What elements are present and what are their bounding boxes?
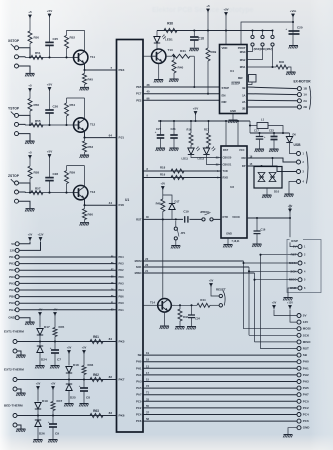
- svg-text:83: 83: [109, 411, 113, 415]
- svg-text:EXT1-THERM: EXT1-THERM: [4, 330, 24, 334]
- svg-text:PJ0: PJ0: [119, 203, 125, 207]
- svg-text:PC0: PC0: [136, 399, 142, 403]
- svg-text:+5V: +5V: [51, 383, 56, 386]
- svg-text:(MS0)(MS1)(MS2): (MS0)(MS1)(MS2): [254, 49, 273, 51]
- svg-text:C27: C27: [156, 127, 162, 131]
- svg-text:PK2: PK2: [9, 268, 15, 272]
- svg-text:13: 13: [146, 364, 149, 368]
- svg-text:PC6: PC6: [136, 419, 142, 423]
- svg-text:PA7: PA7: [136, 393, 142, 397]
- svg-text:2B: 2B: [242, 106, 245, 110]
- svg-text:5V: 5V: [303, 314, 307, 318]
- svg-text:R40: R40: [279, 60, 285, 64]
- svg-text:GND: GND: [8, 316, 16, 320]
- svg-text:T10: T10: [168, 48, 174, 52]
- svg-text:D18: D18: [73, 363, 79, 367]
- svg-text:D26: D26: [39, 432, 45, 436]
- svg-text:PH3: PH3: [9, 281, 15, 285]
- svg-text:STEP: STEP: [222, 86, 230, 90]
- svg-text:+5V: +5V: [36, 383, 41, 386]
- svg-text:D6: D6: [293, 133, 297, 137]
- svg-text:REF: REF: [238, 76, 244, 80]
- svg-text:GND: GND: [230, 109, 236, 113]
- svg-text:71: 71: [146, 391, 149, 395]
- svg-text:PE3: PE3: [119, 68, 125, 72]
- svg-text:VDD: VDD: [222, 46, 228, 50]
- svg-text:PC0: PC0: [303, 399, 309, 403]
- svg-text:R51: R51: [35, 51, 41, 55]
- svg-text:PE2: PE2: [136, 98, 142, 102]
- svg-text:R62: R62: [93, 373, 99, 377]
- svg-text:YSTOP: YSTOP: [8, 107, 20, 111]
- svg-text:PH2: PH2: [303, 373, 309, 377]
- svg-text:MS2: MS2: [240, 58, 246, 62]
- svg-text:C19: C19: [183, 210, 189, 214]
- svg-text:1B: 1B: [242, 86, 245, 90]
- svg-text:R18: R18: [160, 166, 166, 170]
- svg-text:MS1: MS1: [240, 65, 246, 69]
- svg-text:JP1: JP1: [181, 231, 186, 235]
- svg-text:PH5: PH5: [303, 386, 309, 390]
- svg-text:SCK: SCK: [136, 265, 142, 269]
- svg-text:7,18,21: 7,18,21: [232, 240, 241, 243]
- svg-text:PB6: PB6: [119, 295, 125, 299]
- svg-text:17: 17: [146, 371, 149, 375]
- svg-text:PA3: PA3: [136, 380, 142, 384]
- svg-text:+5: +5: [28, 151, 32, 155]
- svg-text:R59: R59: [70, 171, 76, 175]
- svg-text:U1: U1: [125, 198, 129, 202]
- svg-text:PK2: PK2: [119, 268, 125, 272]
- svg-text:XSTOP: XSTOP: [8, 39, 20, 43]
- svg-text:PH1: PH1: [136, 366, 142, 370]
- svg-text:CBUS0: CBUS0: [223, 156, 232, 160]
- svg-text:58: 58: [146, 417, 149, 421]
- svg-text:MOSI: MOSI: [135, 259, 142, 263]
- svg-text:D19: D19: [42, 399, 48, 403]
- svg-text:1B: 1B: [303, 87, 307, 91]
- svg-text:PK4: PK4: [119, 255, 125, 259]
- svg-text:R45: R45: [88, 77, 94, 81]
- svg-text:PA1: PA1: [136, 373, 142, 377]
- svg-text:L1: L1: [261, 118, 265, 122]
- svg-text:C25: C25: [53, 37, 59, 41]
- svg-text:+5: +5: [28, 10, 32, 14]
- svg-text:MISO: MISO: [135, 271, 142, 275]
- svg-text:R55: R55: [35, 119, 41, 123]
- svg-text:R44: R44: [200, 298, 206, 302]
- svg-text:PK3: PK3: [119, 262, 125, 266]
- svg-text:2A: 2A: [242, 100, 245, 104]
- svg-text:RESET: RESET: [216, 288, 226, 292]
- svg-text:+12V: +12V: [38, 234, 44, 237]
- svg-text:R43: R43: [183, 315, 188, 319]
- svg-text:RST: RST: [303, 347, 309, 351]
- svg-text:19: 19: [146, 351, 149, 355]
- svg-text:D17: D17: [175, 200, 180, 204]
- svg-text:DTR: DTR: [223, 215, 228, 219]
- svg-text:PE5: PE5: [136, 85, 142, 89]
- svg-text:+12V: +12V: [287, 302, 293, 305]
- svg-text:SB: SB: [138, 353, 142, 357]
- svg-text:T14: T14: [150, 301, 155, 305]
- svg-text:D25: D25: [70, 396, 76, 400]
- svg-text:PJ1: PJ1: [119, 136, 125, 140]
- svg-text:C26: C26: [53, 105, 59, 109]
- svg-text:PG0: PG0: [119, 301, 125, 305]
- svg-text:+: +: [285, 27, 287, 31]
- svg-text:R48: R48: [156, 202, 161, 206]
- svg-text:PK6: PK6: [119, 414, 125, 418]
- svg-text:R47: R47: [57, 399, 63, 403]
- svg-text:R61: R61: [93, 335, 99, 339]
- svg-text:EXT2-THERM: EXT2-THERM: [4, 368, 24, 372]
- svg-text:R50: R50: [34, 35, 40, 39]
- svg-text:12V: 12V: [10, 248, 15, 252]
- svg-text:R41: R41: [180, 49, 186, 53]
- svg-text:DM: DM: [241, 156, 245, 160]
- svg-text:RST: RST: [136, 218, 142, 222]
- svg-text:PH1: PH1: [303, 366, 309, 370]
- svg-text:MISO: MISO: [303, 340, 311, 344]
- svg-text:+5V: +5V: [47, 83, 52, 87]
- svg-text:18: 18: [146, 358, 149, 362]
- svg-text:T11: T11: [90, 55, 95, 59]
- svg-text:1A: 1A: [242, 93, 245, 97]
- svg-text:+5V: +5V: [28, 234, 33, 237]
- svg-text:RST: RST: [291, 253, 297, 257]
- svg-text:PH3: PH3: [119, 281, 125, 285]
- svg-text:R58: R58: [34, 171, 40, 175]
- svg-text:PH0: PH0: [136, 360, 142, 364]
- svg-text:+5V: +5V: [67, 347, 72, 350]
- svg-text:GND: GND: [303, 426, 311, 430]
- svg-text:C8: C8: [86, 396, 90, 400]
- svg-text:SCK: SCK: [303, 333, 310, 337]
- svg-text:73: 73: [146, 384, 149, 388]
- svg-text:PH3: PH3: [303, 380, 309, 384]
- svg-text:55: 55: [146, 404, 149, 408]
- svg-text:PC6: PC6: [303, 419, 309, 423]
- svg-text:+Vm: +Vm: [290, 9, 297, 13]
- svg-text:84: 84: [109, 337, 113, 341]
- svg-text:C18: C18: [198, 37, 204, 41]
- svg-text:MS3: MS3: [240, 50, 246, 54]
- svg-text:VCC: VCC: [239, 148, 245, 152]
- svg-text:BED-THERM: BED-THERM: [4, 404, 23, 408]
- svg-text:C17: C17: [254, 129, 259, 133]
- svg-text:USB: USB: [294, 143, 302, 147]
- svg-text:R40: R40: [178, 66, 184, 70]
- svg-text:C20: C20: [297, 26, 303, 30]
- svg-text:PC4: PC4: [303, 413, 309, 417]
- svg-text:ICSP: ICSP: [291, 239, 298, 243]
- svg-text:1A: 1A: [303, 93, 307, 97]
- svg-text:R57: R57: [35, 186, 41, 190]
- svg-text:R39: R39: [211, 50, 217, 54]
- svg-text:PC7: PC7: [136, 92, 142, 96]
- svg-text:PH7: PH7: [303, 393, 309, 397]
- svg-text:R56: R56: [34, 103, 40, 107]
- svg-text:82: 82: [109, 375, 113, 379]
- svg-text:C7: C7: [57, 358, 61, 362]
- svg-text:+5V: +5V: [47, 9, 52, 13]
- svg-text:PC4: PC4: [136, 413, 142, 417]
- svg-text:PK3: PK3: [9, 262, 15, 266]
- svg-text:C28: C28: [53, 172, 59, 176]
- svg-text:5V: 5V: [293, 245, 297, 249]
- svg-text:44: 44: [109, 201, 113, 205]
- svg-text:38: 38: [147, 83, 150, 87]
- svg-text:PK0: PK0: [9, 275, 15, 279]
- svg-text:PH4: PH4: [119, 288, 125, 292]
- svg-text:+5V: +5V: [38, 309, 43, 312]
- svg-text:2A: 2A: [303, 99, 307, 103]
- svg-text:40: 40: [147, 90, 150, 94]
- svg-text:R60: R60: [88, 213, 94, 217]
- svg-text:+5: +5: [28, 84, 32, 88]
- svg-text:PK7: PK7: [119, 378, 125, 382]
- svg-text:PC2: PC2: [136, 406, 142, 410]
- svg-text:+5V: +5V: [47, 150, 52, 154]
- svg-text:PK0: PK0: [119, 275, 125, 279]
- svg-text:LD12: LD12: [198, 157, 205, 161]
- svg-text:R17: R17: [204, 128, 209, 132]
- svg-text:96: 96: [147, 96, 150, 100]
- svg-text:T13: T13: [90, 190, 96, 194]
- svg-text:CBUS1: CBUS1: [223, 163, 232, 167]
- svg-text:T12: T12: [90, 123, 96, 127]
- svg-text:15: 15: [146, 378, 149, 382]
- svg-text:C9: C9: [55, 432, 59, 436]
- svg-text:U3: U3: [230, 185, 234, 189]
- svg-text:12V: 12V: [303, 320, 308, 324]
- svg-text:+: +: [79, 384, 81, 388]
- svg-text:PH0: PH0: [303, 360, 309, 364]
- svg-text:MOSI: MOSI: [303, 327, 311, 331]
- svg-text:R38: R38: [167, 22, 173, 26]
- svg-text:PG1: PG1: [119, 308, 125, 312]
- svg-text:PG0: PG0: [9, 301, 15, 305]
- svg-text:D24: D24: [41, 358, 47, 362]
- svg-text:JPROG: JPROG: [200, 210, 209, 214]
- svg-text:PK4: PK4: [9, 255, 15, 259]
- svg-text:R46: R46: [88, 363, 94, 367]
- svg-text:C24: C24: [195, 317, 200, 321]
- svg-text:+5V: +5V: [53, 309, 58, 312]
- svg-text:ZSTOP: ZSTOP: [8, 174, 20, 178]
- svg-text:2B: 2B: [303, 105, 307, 109]
- svg-text:DP: DP: [242, 164, 246, 168]
- svg-text:R45: R45: [59, 325, 65, 329]
- svg-text:R16: R16: [187, 128, 192, 132]
- svg-text:+: +: [48, 420, 50, 424]
- svg-text:D10: D10: [274, 190, 280, 194]
- svg-text:+5V: +5V: [209, 280, 214, 283]
- svg-text:RST: RST: [223, 148, 229, 152]
- svg-text:Elektor PCB Service prototype: Elektor PCB Service prototype: [152, 7, 254, 14]
- svg-text:33: 33: [146, 397, 149, 401]
- svg-text:+5: +5: [206, 4, 210, 8]
- svg-text:+5V: +5V: [161, 183, 166, 186]
- svg-text:LED1: LED1: [165, 38, 173, 42]
- svg-text:64: 64: [109, 133, 113, 137]
- svg-text:PK5: PK5: [119, 340, 125, 344]
- svg-text:5V: 5V: [11, 242, 15, 246]
- svg-text:PG1: PG1: [9, 308, 15, 312]
- svg-text:PH4: PH4: [9, 288, 15, 292]
- svg-text:R63: R63: [93, 409, 99, 413]
- svg-text:C16: C16: [261, 228, 266, 232]
- svg-text:PB6: PB6: [9, 295, 15, 299]
- svg-text:+: +: [50, 346, 52, 350]
- svg-text:C31: C31: [171, 127, 177, 131]
- svg-text:LD11: LD11: [182, 157, 189, 161]
- svg-text:R53: R53: [88, 145, 94, 149]
- svg-text:RXD: RXD: [223, 176, 229, 180]
- svg-text:TXD: TXD: [223, 169, 228, 173]
- svg-text:EN: EN: [222, 93, 226, 97]
- svg-text:+5V: +5V: [82, 347, 87, 350]
- svg-text:GND: GND: [226, 232, 232, 236]
- svg-text:+5V: +5V: [272, 302, 277, 305]
- svg-text:R52: R52: [70, 35, 76, 39]
- svg-text:37: 37: [146, 411, 149, 415]
- svg-text:U4: U4: [230, 69, 234, 73]
- svg-text:+5V: +5V: [193, 107, 198, 111]
- svg-text:R54: R54: [70, 103, 76, 107]
- svg-text:EX-MOTOR: EX-MOTOR: [293, 80, 311, 84]
- svg-text:PA5: PA5: [136, 386, 142, 390]
- svg-text:VCCIO: VCCIO: [232, 216, 240, 219]
- svg-text:PC2: PC2: [303, 406, 309, 410]
- svg-text:R19: R19: [160, 173, 166, 177]
- svg-text:D17: D17: [44, 325, 50, 329]
- svg-text:+5V: +5V: [223, 8, 228, 12]
- svg-text:C23: C23: [269, 129, 274, 133]
